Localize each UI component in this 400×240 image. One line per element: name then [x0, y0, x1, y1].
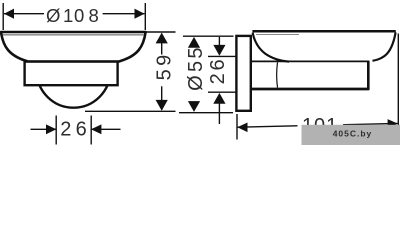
- svg-text:Ø: Ø: [185, 75, 207, 91]
- svg-text:5: 5: [185, 47, 207, 58]
- svg-text:5: 5: [153, 69, 175, 80]
- svg-text:1: 1: [63, 5, 73, 26]
- svg-text:8: 8: [88, 5, 98, 26]
- svg-text:6: 6: [207, 59, 229, 70]
- svg-text:5: 5: [185, 61, 207, 72]
- svg-text:Ø: Ø: [46, 5, 60, 26]
- svg-text:405C.by: 405C.by: [333, 128, 373, 138]
- svg-text:9: 9: [153, 55, 175, 66]
- svg-text:2: 2: [207, 73, 229, 84]
- svg-text:6: 6: [76, 119, 87, 141]
- svg-text:0: 0: [74, 5, 84, 26]
- svg-text:2: 2: [60, 119, 71, 141]
